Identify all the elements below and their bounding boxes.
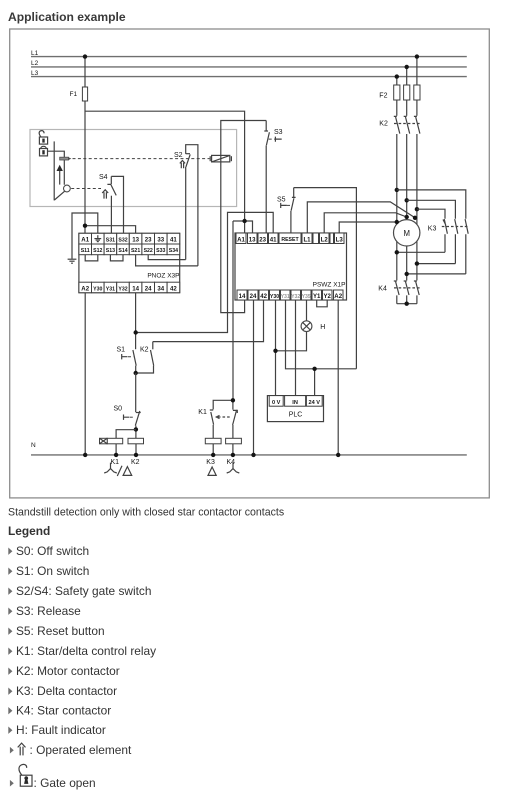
switch S1 (on button)	[117, 347, 137, 373]
wire S21 to S2 (passes under relay body)	[136, 255, 198, 266]
node K2/N junction	[134, 453, 138, 457]
node L1/F1 junction	[83, 54, 87, 58]
svg-text:K4: K4	[378, 286, 387, 293]
wire phase C to motor and K4	[416, 209, 418, 280]
wire S22 jumper to S2	[148, 255, 186, 260]
svg-text:S32: S32	[118, 238, 127, 244]
node phase C tap	[415, 54, 419, 58]
svg-text:13: 13	[132, 237, 139, 244]
node motor terminal W	[413, 216, 417, 220]
svg-text:K4: Star contactor: K4: Star contactor	[16, 704, 111, 718]
contacts K4 (star contactor, 3 pole)	[378, 281, 421, 304]
wire U2-Y31 to S5 line and PLC 24V	[286, 300, 357, 396]
svg-text:Y32: Y32	[291, 294, 300, 300]
node phase A tap	[395, 74, 399, 78]
svg-text:S13: S13	[106, 248, 115, 254]
svg-text:S0: Off switch: S0: Off switch	[16, 544, 89, 558]
node K1/N junction	[114, 453, 118, 457]
svg-text:PNOZ X3P: PNOZ X3P	[147, 272, 179, 279]
svg-text:Y30: Y30	[270, 294, 279, 300]
svg-text:24: 24	[250, 293, 257, 300]
svg-text:S33: S33	[156, 248, 165, 254]
wire motor W to K3 bottom	[417, 263, 456, 265]
bus L2	[31, 60, 467, 67]
contacts K2 (motor contactor, 3 pole)	[379, 100, 421, 209]
svg-text:A2: A2	[334, 293, 342, 300]
dashed actuator link upper (gate tongue to S2/interlock)	[73, 158, 210, 160]
ground symbol	[68, 259, 77, 263]
node F1/A1 junction	[83, 224, 87, 228]
legend item operated element	[10, 743, 132, 757]
node K4/N junction	[231, 453, 235, 457]
svg-text:L2: L2	[321, 236, 329, 243]
node motor terminal V	[405, 215, 409, 219]
label K1 coil	[111, 459, 120, 466]
legend item S5	[8, 624, 104, 638]
svg-text:Y35: Y35	[302, 294, 311, 300]
contact K2 (self hold, parallel S1)	[136, 342, 154, 373]
svg-text:S1: On switch: S1: On switch	[16, 564, 89, 578]
padlock closed icon	[40, 146, 48, 156]
bus N	[31, 442, 467, 455]
legend item H	[8, 723, 106, 737]
svg-text:34: 34	[157, 286, 164, 293]
wire phase B tap from L2	[406, 67, 408, 85]
svg-text:A2: A2	[81, 286, 89, 293]
switch S5 (reset button)	[277, 188, 296, 233]
svg-text:13: 13	[249, 236, 256, 243]
svg-text:L1: L1	[303, 236, 311, 243]
U2 pin row A1 13 23 41 RESET L1 L2 L3	[236, 233, 344, 244]
node K1 contacts feed junction	[231, 398, 235, 402]
legend item K1	[8, 644, 156, 658]
svg-text:Y2: Y2	[323, 293, 331, 300]
svg-text:IN: IN	[292, 400, 298, 406]
wire S0 to K1 coil	[116, 430, 136, 439]
wire phase C tap from L1	[416, 57, 418, 85]
node star point	[405, 302, 409, 306]
node U2 supply junction	[242, 219, 246, 223]
svg-text:S0: S0	[114, 405, 123, 412]
ground wire from terminal	[72, 213, 98, 259]
node K3/N junction	[211, 453, 215, 457]
svg-text:K3: Delta contactor: K3: Delta contactor	[16, 684, 117, 698]
wire PNOZ-14 down to S1	[135, 293, 137, 350]
svg-text:Y31: Y31	[281, 294, 290, 300]
svg-text:41: 41	[170, 237, 177, 244]
node Y30/lamp junction	[273, 349, 277, 353]
wire motor V to K3 bottom	[407, 273, 466, 275]
legend item S0	[8, 544, 89, 558]
U2 pin row 14 24 42 Y30 Y31 Y32 Y35 Y1 Y2 A2	[237, 290, 343, 300]
U1 pin row A2 Y30 Y31 Y32 14 24 34 42	[79, 282, 180, 293]
wire U2-24 to N	[253, 300, 255, 455]
svg-text:S31: S31	[106, 238, 115, 244]
relay U1 PNOZ X3P body	[79, 233, 180, 292]
interlock solenoid (gate lock coil)	[210, 155, 231, 162]
svg-text:S3: Release: S3: Release	[16, 604, 81, 618]
PLC box	[267, 396, 323, 422]
svg-text:0 V: 0 V	[272, 400, 281, 406]
svg-text:Y30: Y30	[93, 286, 102, 292]
legend item S2/S4	[8, 584, 151, 598]
svg-text:Standstill detection only with: Standstill detection only with closed st…	[8, 507, 284, 519]
wire motor U to K3 bottom	[397, 251, 445, 253]
gate (door) line	[53, 141, 55, 200]
svg-text:K3: K3	[206, 459, 215, 466]
svg-text:S34: S34	[169, 248, 178, 254]
svg-text:L3: L3	[336, 236, 344, 243]
svg-text:K2: K2	[379, 121, 388, 128]
wire U2-Y32 to PLC IN	[295, 300, 297, 396]
padlock open icon	[39, 131, 47, 144]
wire supply down to K1 contacts	[232, 221, 234, 400]
wire phase A to motor and K4	[396, 190, 398, 281]
svg-text:Y31: Y31	[106, 286, 115, 292]
jumper Y1-Y2	[317, 300, 328, 307]
svg-text:: Operated element: : Operated element	[30, 743, 132, 757]
node motor terminal U	[395, 220, 399, 224]
contacts K1 (star/delta changeover)	[198, 400, 237, 425]
svg-text:Application example: Application example	[8, 10, 126, 24]
svg-text:S1: S1	[117, 347, 126, 354]
svg-text:24: 24	[145, 286, 152, 293]
lamp H (fault indicator)	[301, 300, 325, 332]
operated element symbol at S4	[102, 190, 108, 199]
svg-text:M: M	[403, 229, 410, 238]
switch S2 (safety gate switch contact)	[174, 145, 198, 266]
svg-text:L3: L3	[31, 70, 39, 77]
svg-text:S11: S11	[81, 248, 90, 254]
svg-text:A1: A1	[81, 237, 89, 244]
svg-text:RESET: RESET	[281, 237, 299, 243]
wire S1 junction to S0	[135, 373, 137, 412]
legend item K3	[8, 684, 117, 698]
svg-text:K1: K1	[198, 409, 207, 416]
coil K3 (delta contactor)	[205, 425, 221, 455]
coil K2 (motor contactor coil)	[128, 438, 144, 455]
svg-text:L1: L1	[31, 50, 39, 57]
svg-text:K1: Star/delta control relay: K1: Star/delta control relay	[16, 644, 156, 658]
star symbol under K4	[227, 463, 240, 473]
svg-text:33: 33	[157, 237, 164, 244]
svg-text:41: 41	[270, 236, 277, 243]
node U2-A2/N junction	[336, 453, 340, 457]
motor M	[394, 220, 420, 246]
gate motion arrow	[57, 165, 63, 185]
wire U2-A2 to N	[337, 300, 339, 455]
gate tongue actuator	[60, 157, 72, 160]
svg-text:L2: L2	[31, 60, 39, 67]
fuse F1	[70, 57, 88, 226]
wire F1 supply to U2 A1/13	[85, 111, 253, 233]
svg-text:Y1: Y1	[313, 293, 321, 300]
node motor U lower junction	[395, 250, 399, 254]
coil K4 (star contactor)	[226, 425, 242, 455]
operated element symbol at S2	[180, 161, 185, 169]
bus L3	[31, 70, 467, 77]
wire U2-41 to PNOZ-14 loop	[136, 212, 274, 332]
node K3 feed B	[405, 198, 409, 202]
svg-text:S3: S3	[274, 129, 283, 136]
svg-text:S22: S22	[144, 248, 153, 254]
wire PSWZ-14 feedback loop to interlock and S3	[221, 121, 266, 313]
svg-text:K2: Motor contactor: K2: Motor contactor	[16, 664, 120, 678]
node motor W lower junction	[415, 261, 419, 265]
svg-text:S5: Reset button: S5: Reset button	[16, 624, 105, 638]
svg-text:14: 14	[132, 286, 139, 293]
svg-text:S5: S5	[277, 196, 286, 203]
legend item S3	[8, 604, 81, 618]
node A2/N junction	[83, 453, 87, 457]
wire U2-L2 monitor tap to motor terminal	[324, 213, 407, 233]
U1 pin row S11 S12 S13 S14 S21 S22 S33 S34	[79, 244, 180, 255]
bus L1	[31, 50, 467, 57]
U1 pin row A1 ⏚ S31 S32 13 23 33 41	[79, 233, 180, 244]
svg-text:PSWZ X1P: PSWZ X1P	[313, 282, 346, 289]
svg-text:23: 23	[145, 237, 152, 244]
wire F1 to A1 and 13 (PNOZ supply)	[85, 226, 136, 234]
jumper S11-S12	[85, 255, 98, 261]
dashed actuator link lower (gate roller to S4)	[71, 188, 101, 190]
svg-text:23: 23	[259, 236, 266, 243]
fuse F2 (3x)	[379, 85, 420, 100]
svg-text:F1: F1	[70, 91, 78, 98]
svg-text:H: Fault indicator: H: Fault indicator	[16, 723, 106, 737]
node K3 feed C	[415, 207, 419, 211]
svg-text:S14: S14	[118, 248, 127, 254]
node PNOZ-14/U2-41 junction	[134, 330, 138, 334]
svg-text:Y32: Y32	[118, 286, 127, 292]
svg-text:S2/S4: Safety gate switch: S2/S4: Safety gate switch	[16, 584, 152, 598]
wire U2-42 to K2 contact	[153, 300, 264, 342]
svg-text:S12: S12	[93, 248, 102, 254]
svg-text:14: 14	[239, 293, 246, 300]
U1 ground pin symbol	[94, 235, 101, 241]
wire phase A tap from L3	[396, 77, 398, 85]
diagram frame	[10, 29, 490, 498]
svg-text:F2: F2	[379, 93, 387, 100]
svg-text:Legend: Legend	[8, 524, 50, 538]
svg-text:24 V: 24 V	[309, 400, 321, 406]
node 24/N junction	[251, 453, 255, 457]
wire U2-Y30 to lamp and PLC 0V	[276, 300, 307, 396]
coil K1 (star/delta control relay)	[100, 438, 123, 455]
svg-text:42: 42	[170, 286, 177, 293]
wire star point bar	[397, 303, 417, 305]
svg-text:S2: S2	[174, 152, 183, 159]
svg-text:K2: K2	[131, 459, 140, 466]
jumper S13-S14	[110, 255, 123, 261]
legend item K4	[8, 704, 111, 718]
delta symbol under K3	[208, 467, 216, 475]
contacts K3 (delta contactor, 3 pole)	[397, 190, 469, 274]
node Y31/PLC-24V junction	[312, 367, 316, 371]
svg-text:42: 42	[260, 293, 267, 300]
svg-text:S21: S21	[131, 248, 140, 254]
svg-text:H: H	[320, 324, 325, 331]
svg-text:K3: K3	[428, 226, 437, 233]
wire U2-L3 monitor tap to motor terminal	[339, 222, 397, 233]
svg-text:K4: K4	[227, 459, 236, 466]
wire S5 to Y31/PLC line	[294, 188, 357, 369]
svg-text:PLC: PLC	[289, 412, 303, 419]
wire A2 to N	[84, 293, 86, 455]
switch S0 (off button, NC)	[114, 405, 141, 438]
svg-text:: Gate open: : Gate open	[34, 776, 96, 790]
node motor V lower junction	[405, 272, 409, 276]
svg-text:A1: A1	[237, 236, 245, 243]
node phase B tap	[405, 65, 409, 69]
svg-text:K2: K2	[140, 347, 149, 354]
safety gate enclosure (gray box)	[30, 130, 237, 207]
wire padlock to gate	[48, 151, 65, 185]
node K3 feed A	[395, 188, 399, 192]
svg-text:N: N	[31, 442, 36, 449]
node S0 output junction	[134, 427, 138, 431]
legend item K2	[8, 664, 119, 678]
wire U2-L1 monitor tap to motor terminal	[307, 202, 415, 233]
gate roller	[64, 185, 71, 192]
svg-text:S4: S4	[99, 174, 108, 181]
svg-text:K1: K1	[111, 459, 120, 466]
switch S3 (release button)	[264, 121, 282, 234]
relay U2 PSWZ X1P body	[235, 233, 347, 300]
gate door edge diagonal	[54, 191, 65, 200]
legend item gate open	[10, 764, 96, 789]
star/delta symbol under K1	[104, 463, 132, 476]
node S1/K2 bottom junction	[134, 371, 138, 375]
switch S4 (safety gate switch contact)	[99, 174, 124, 233]
legend item S1	[8, 564, 89, 578]
wire phase B to motor and K4	[406, 200, 408, 280]
